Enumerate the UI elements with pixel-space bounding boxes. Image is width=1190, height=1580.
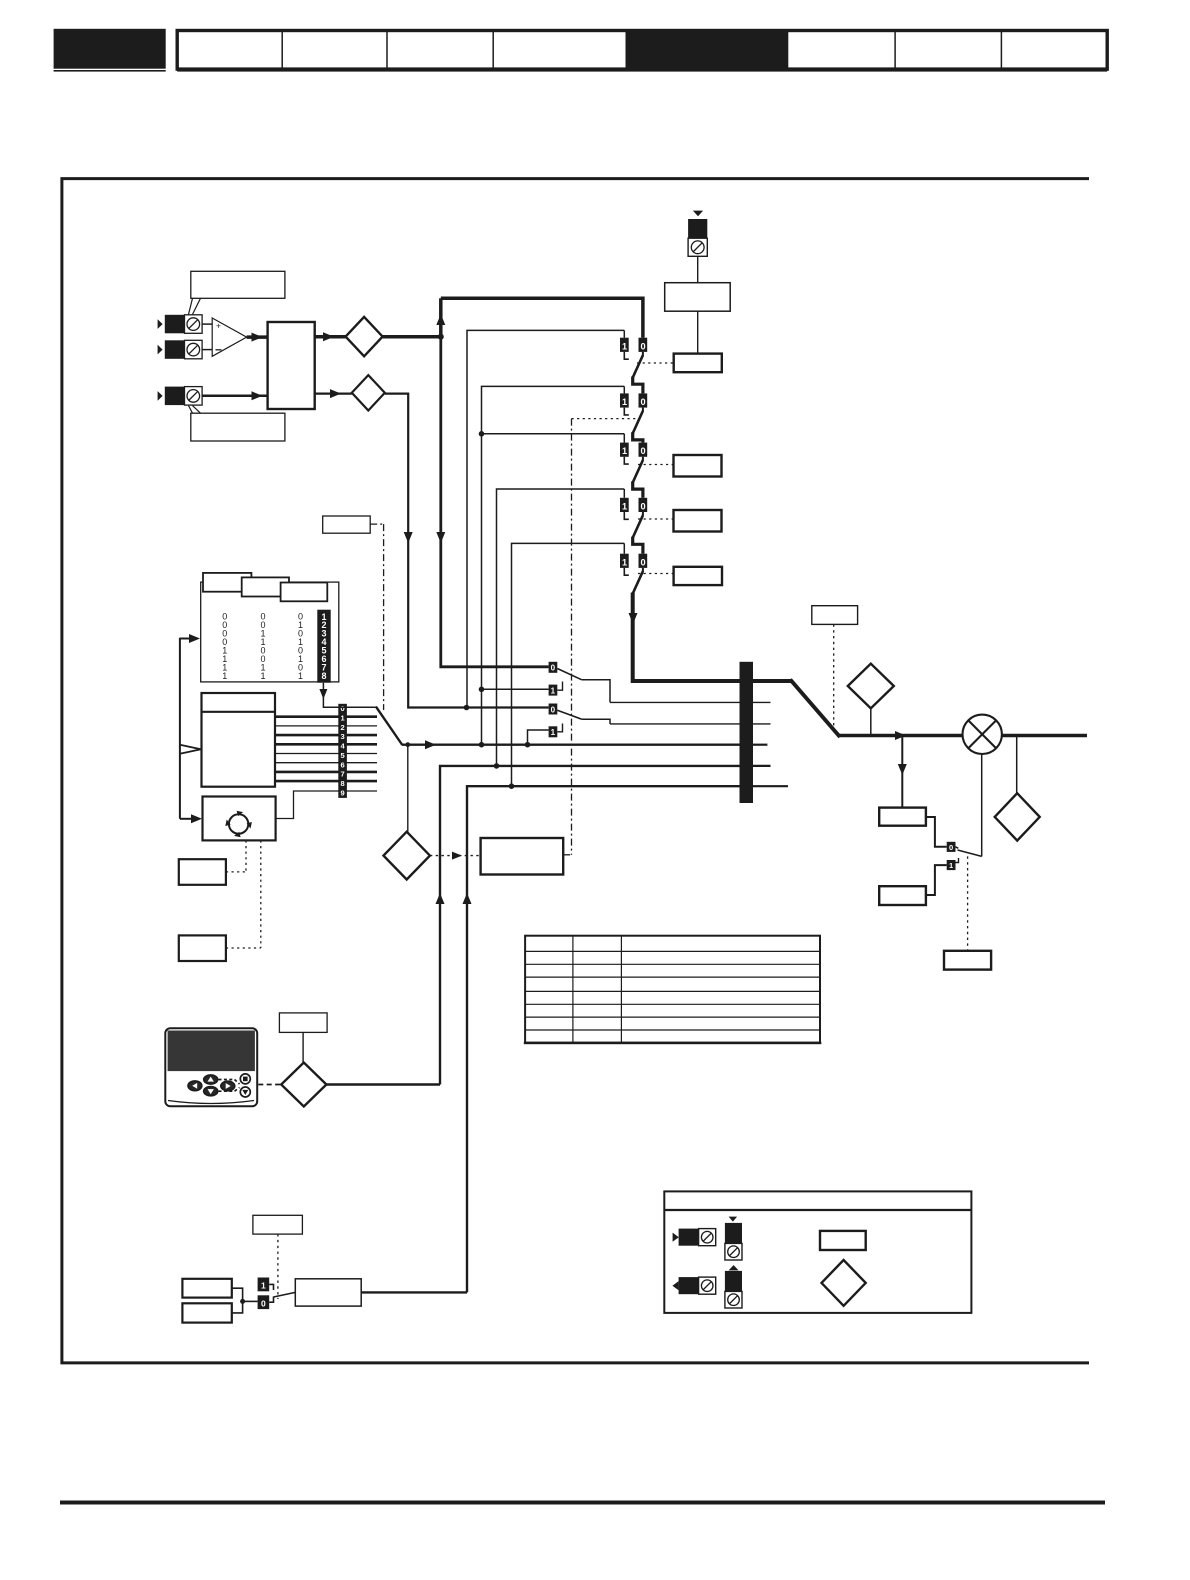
wire node N1 up to top rail (436, 298, 445, 338)
svg-text:1: 1 (551, 728, 556, 737)
wire net V4 feeds switch S5 (509, 543, 625, 789)
wire net V2 feeds switches S2 S3 (479, 386, 625, 747)
diamond D3 reference selected indicator (384, 832, 430, 880)
dotted link switch S2 (572, 418, 637, 420)
wire op-amp to block A1 (247, 333, 268, 342)
legend vertical input terminal symbol (725, 1217, 742, 1260)
binary select table box (201, 582, 339, 682)
svg-text:0: 0 (261, 1298, 266, 1308)
wire keypad reference row (436, 766, 754, 1085)
svg-text:0: 0 (641, 341, 646, 351)
switch S4 selector (620, 489, 647, 554)
wire net V1 feeds switch S1 input 1 (467, 330, 624, 707)
svg-text:7: 7 (341, 770, 345, 779)
diamond D2 analog reference 2 (352, 375, 385, 410)
wire bus output diagonal (753, 680, 963, 741)
svg-text:1: 1 (622, 557, 627, 567)
switch SC offset select (947, 842, 982, 857)
table header box H3 (281, 583, 328, 602)
parameter box precision fine (182, 1303, 231, 1322)
legend vertical output terminal symbol (725, 1265, 742, 1308)
switch SB input 1 box (549, 724, 563, 738)
callout box keypad reference (279, 1013, 327, 1033)
row number bar 0-9 (338, 704, 347, 798)
parameter box offset P-R2 (879, 886, 926, 905)
callout box precision reference (253, 1215, 303, 1299)
svg-text:0: 0 (641, 397, 646, 407)
keypad unit (165, 1028, 257, 1106)
svg-text:1: 1 (949, 861, 953, 870)
diamond D4 pre-skip reference (848, 664, 894, 709)
preset speeds block (202, 693, 276, 787)
wire block B1 to box P-S1t (697, 311, 699, 353)
block B1 reference limits (665, 283, 731, 312)
svg-text:1: 1 (622, 397, 627, 407)
switch SD input 1 (258, 1278, 274, 1292)
wire main output line (1002, 734, 1087, 738)
table header box H2 (242, 577, 289, 596)
parameter box P-S4 (674, 510, 722, 532)
wire offset block to switch SC (926, 817, 947, 847)
svg-text:2: 2 (341, 723, 345, 732)
switch SA bit selector (549, 662, 610, 703)
diamond D5 post-offset reference (995, 793, 1040, 840)
switch SD precision select (258, 1292, 296, 1309)
wire T2 to op-amp (202, 349, 212, 351)
binary select values (222, 612, 303, 681)
svg-text:5: 5 (341, 751, 345, 760)
legend read-only parameter symbol (822, 1260, 866, 1306)
svg-text:0: 0 (551, 705, 556, 714)
svg-text:9: 9 (341, 788, 345, 797)
dotted link switch S4 (638, 518, 674, 520)
op-amp U1 differential amplifier (212, 318, 246, 356)
dotted link switch S3 (638, 464, 674, 466)
block A1 analog reference processing (268, 322, 315, 409)
callout box analog input 2 (189, 406, 285, 441)
svg-text:3: 3 (341, 732, 345, 741)
wire selected reference main line (323, 707, 753, 750)
wire net V3 feeds switch S4 (494, 489, 625, 769)
bus stub row 1 (753, 701, 771, 703)
svg-text:8: 8 (321, 671, 326, 681)
svg-text:0: 0 (641, 557, 646, 567)
svg-text:0: 0 (641, 501, 646, 511)
svg-text:0: 0 (551, 664, 556, 673)
parameter box P-S3 (674, 455, 722, 477)
legend box (664, 1191, 971, 1313)
bracket distribution wire (180, 634, 202, 823)
switch SC input 1 (947, 858, 959, 870)
legend read-write parameter symbol (820, 1231, 866, 1250)
wire diamond D6 output (326, 1083, 440, 1085)
dotted arrow indicator to box (430, 852, 481, 860)
wire precision block output (361, 1291, 467, 1293)
wire box P-R2 to switch SC input 1 (926, 865, 947, 895)
parameter box P-R3 (944, 951, 991, 970)
dotted link switch S5 (638, 573, 674, 575)
legend output terminal symbol (672, 1277, 715, 1294)
wire feed SB input 1 (525, 730, 549, 748)
switch SA input 1 box (549, 682, 563, 696)
parameter box offset P-R1 (879, 808, 926, 826)
svg-text:1: 1 (622, 341, 627, 351)
callout box reference offset (812, 606, 858, 727)
wire SA output row (610, 701, 753, 703)
dotted link switch S1 (637, 362, 674, 364)
scan timer block (203, 797, 276, 841)
dotted link switch SC (967, 856, 969, 950)
svg-text:6: 6 (341, 760, 345, 769)
callout box preset select (323, 516, 384, 710)
terminal T2 analog input - (158, 340, 203, 359)
svg-text:1: 1 (551, 686, 556, 695)
wire diamond D1 to node N1 (383, 334, 444, 340)
table header box H1 (203, 573, 251, 592)
parameter box reference selected (481, 838, 564, 875)
svg-text:1: 1 (622, 446, 627, 456)
svg-text:1: 1 (260, 671, 265, 681)
page header tab table (177, 31, 1107, 72)
switch S2 selector (620, 386, 647, 442)
terminal T4 analog input 2 (158, 387, 203, 406)
wire diamond D2 down-branch (385, 394, 549, 711)
svg-text:+: + (216, 321, 221, 331)
terminal T5 vertical input (688, 211, 707, 257)
wire switch S5 output to bus (629, 593, 754, 682)
diamond D1 analog reference 1 (346, 317, 383, 356)
dotted link scan timer a (226, 840, 246, 872)
wire SB output row (610, 723, 753, 725)
bus stub row 5 (753, 785, 788, 787)
svg-text:1: 1 (222, 671, 227, 681)
preset output rows 1-8 (275, 717, 377, 781)
bus bar reference select (740, 662, 754, 803)
diamond D6 keypad reference (281, 1063, 326, 1107)
diagram frame (open right side) (62, 179, 1089, 1363)
svg-text:8: 8 (341, 779, 345, 788)
top rail to switch S1 (441, 298, 643, 337)
block precision reference (295, 1279, 361, 1306)
data table grid (524, 936, 822, 1044)
dash-dot link reference indicator (563, 419, 571, 855)
wire block A1 out1 to diamond D1 (315, 332, 346, 341)
switch SB bit selector (549, 704, 610, 724)
parameter box P-S1 (674, 354, 722, 373)
terminal T1 analog input + (158, 315, 203, 334)
parameter box P-S5 (674, 567, 722, 585)
bus stub row 4 (753, 765, 771, 767)
legend input terminal symbol (673, 1229, 716, 1246)
bus stub row 2 (753, 723, 771, 725)
scan timer block wire row 9 (276, 791, 377, 819)
svg-text:1: 1 (261, 1281, 266, 1291)
svg-text:1: 1 (622, 501, 627, 511)
svg-text:0: 0 (949, 843, 953, 852)
switch S5 selector (620, 543, 647, 593)
wire select arrow to row 0 (319, 683, 376, 708)
dashed link keypad to diamond (258, 1084, 281, 1086)
bus stub row 3 (753, 744, 767, 746)
multiplier node X1 (963, 715, 1002, 754)
page header black tab (54, 29, 166, 72)
svg-text:0: 0 (641, 446, 646, 456)
svg-text:1: 1 (341, 714, 345, 723)
svg-text:0: 0 (341, 704, 345, 713)
wire to diamond D5 (1016, 736, 1018, 794)
wire callout to diamond D6 (302, 1032, 304, 1062)
wire T1 to op-amp (202, 323, 212, 325)
wire branch to offset block (898, 736, 907, 808)
parameter box precision coarse (182, 1279, 231, 1298)
switch S3 selector (620, 434, 647, 498)
wire block A1 out2 to diamond D2 (315, 389, 352, 398)
parameter box P-T1 (179, 859, 226, 885)
wire to reference indicator diamond (407, 745, 409, 832)
footer rule (60, 1501, 1105, 1505)
dotted link scan timer b (226, 840, 261, 948)
switch S1 selector (620, 330, 647, 393)
preset number bar 1-8 (317, 610, 330, 683)
wire multiplier junction down (981, 754, 983, 856)
wire T5 to block B1 (697, 256, 699, 282)
wire node N1 down-branch (436, 337, 548, 667)
parameter box P-T2 (179, 935, 226, 961)
svg-text:1: 1 (298, 671, 303, 681)
wire diamond D4 to main line (870, 708, 872, 735)
wire T4 to block A1 (202, 391, 268, 400)
wire precision reference row (463, 786, 754, 1292)
wire precision boxes join (232, 1288, 258, 1313)
callout box analog input 1 (189, 271, 285, 314)
